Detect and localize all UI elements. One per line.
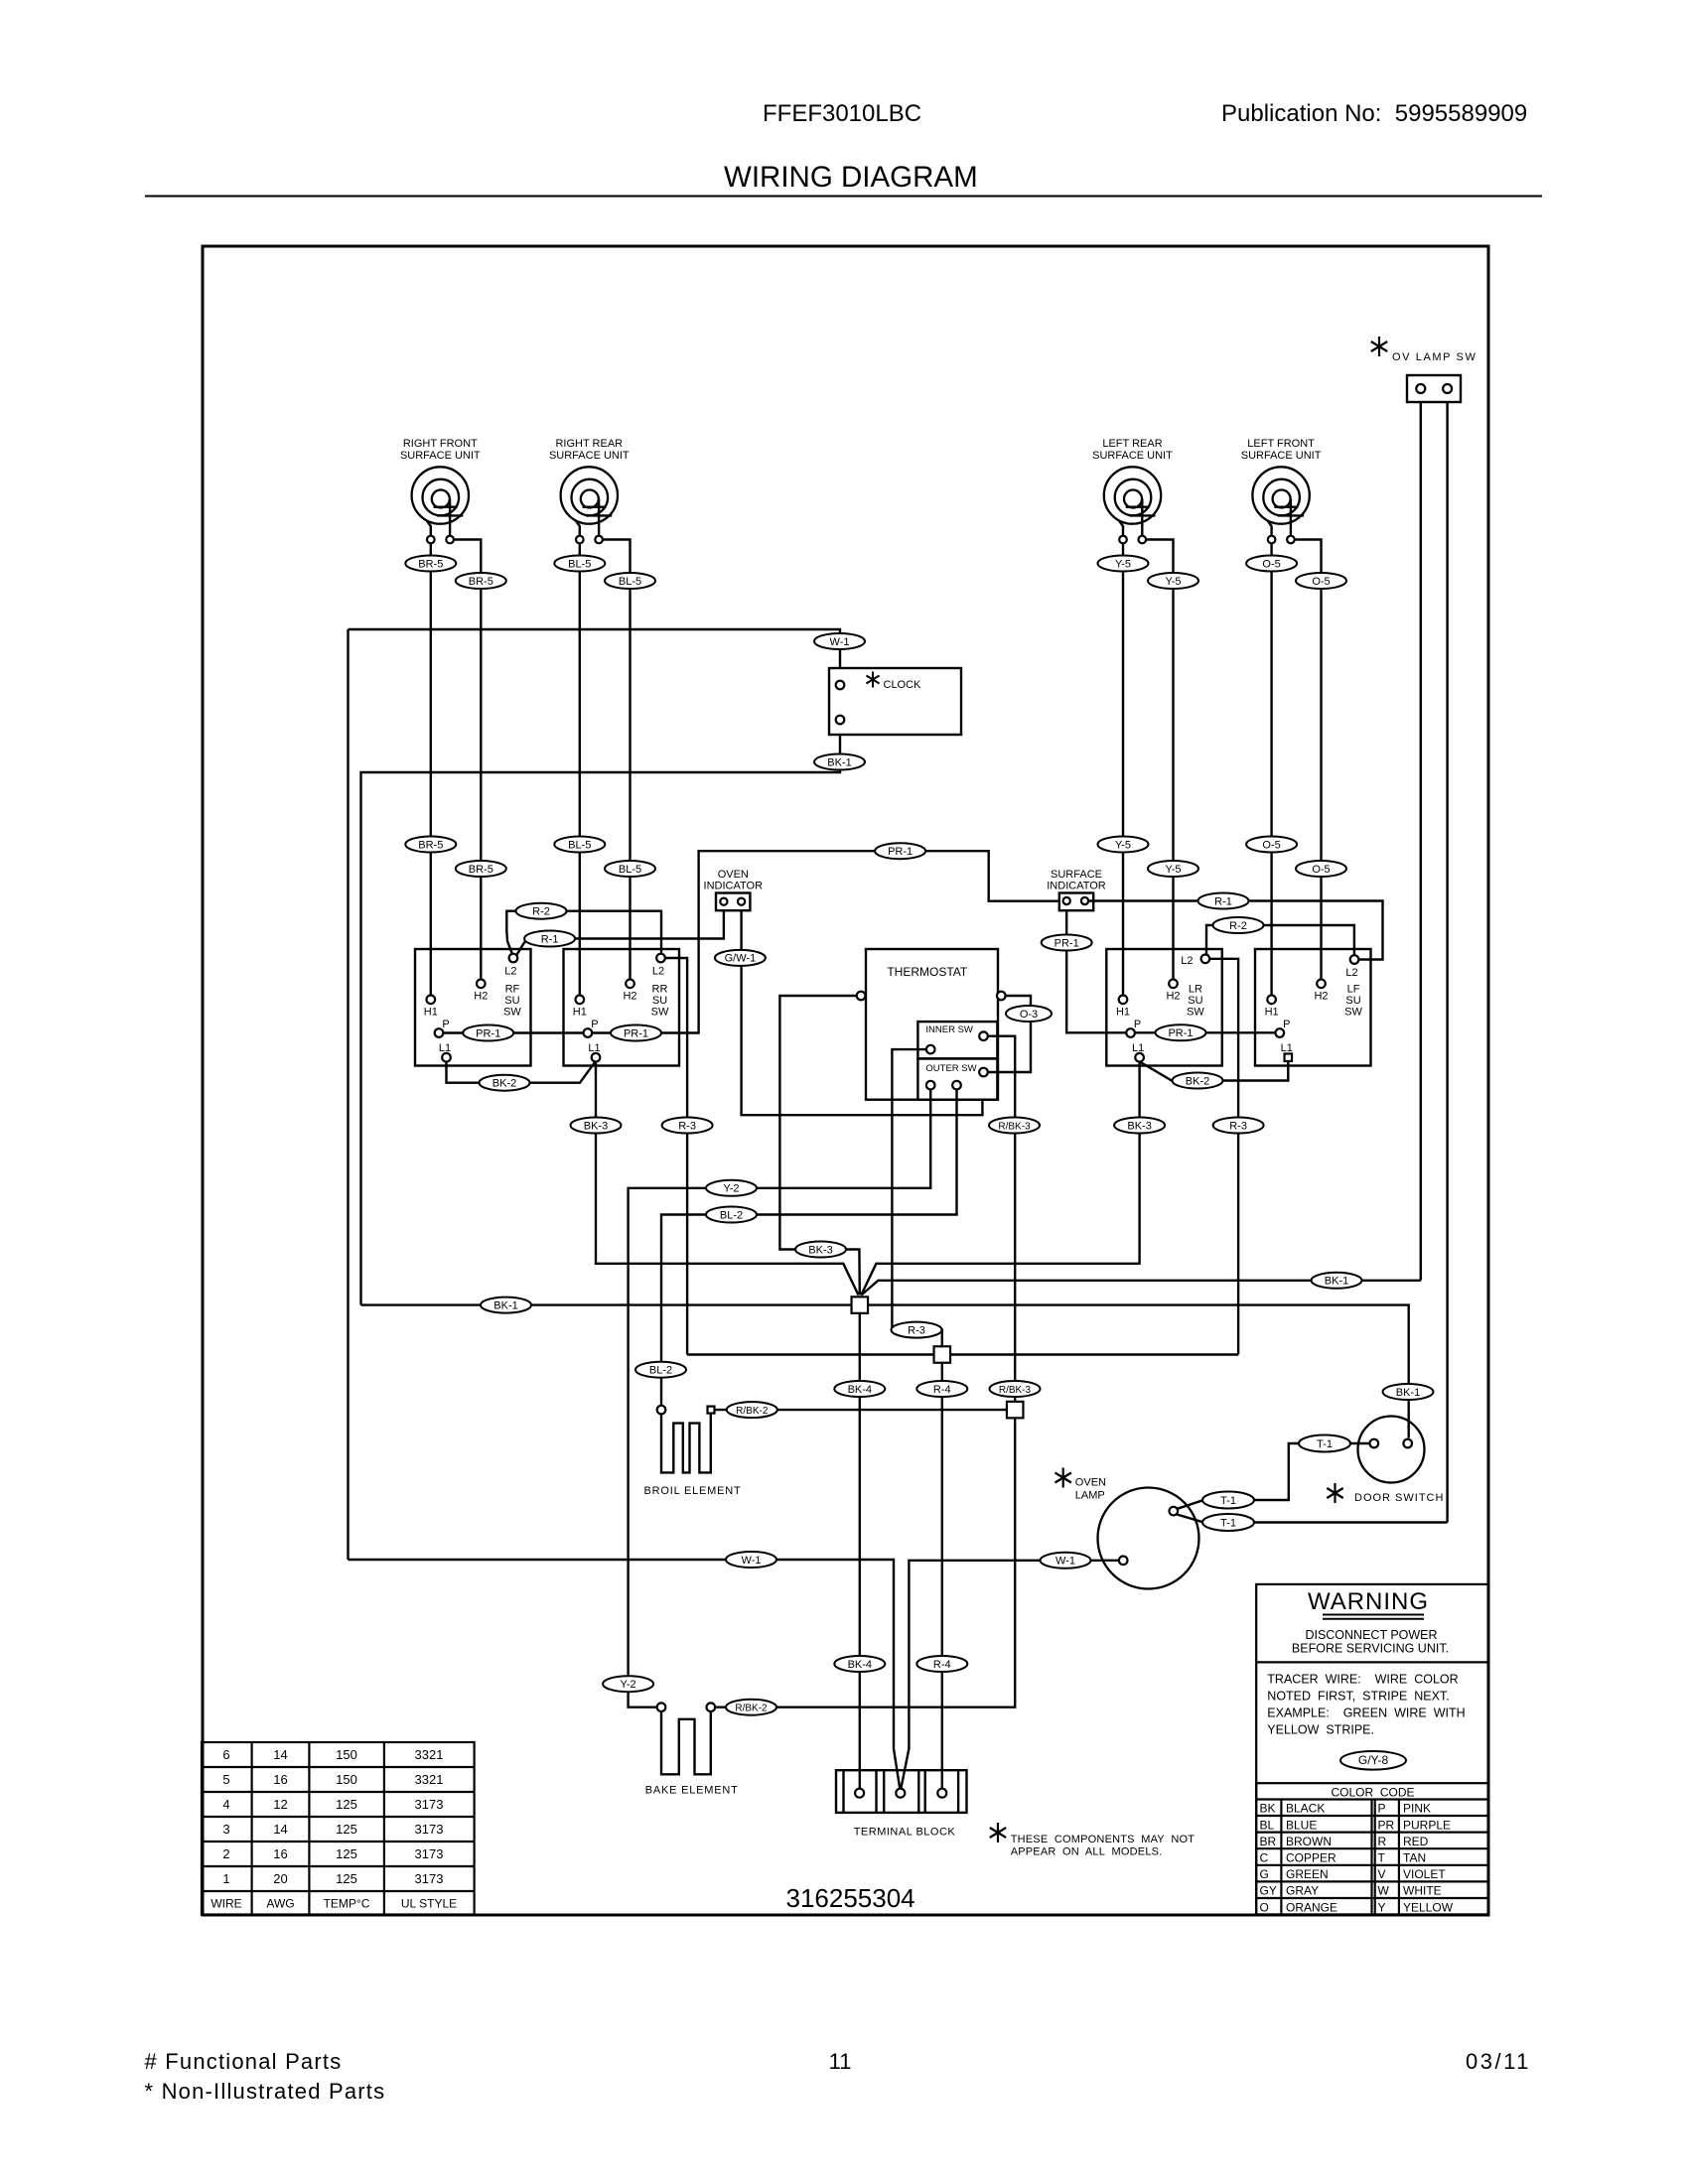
broil element heater coil — [661, 1414, 711, 1473]
svg-text:3173: 3173 — [415, 1797, 444, 1812]
svg-text:G: G — [1260, 1867, 1269, 1881]
title underline — [145, 196, 1542, 198]
OV LAMP SW switch box — [1407, 375, 1461, 402]
wire W-1 to clock — [349, 629, 841, 668]
svg-text:BROIL ELEMENT: BROIL ELEMENT — [644, 1485, 742, 1497]
warning divider — [1256, 1661, 1488, 1663]
OUTER SW terminal bottom left — [926, 1081, 935, 1090]
junction node R/BK (node 3) — [1007, 1402, 1023, 1419]
svg-text:BR: BR — [1260, 1835, 1277, 1848]
wire PR-1 RF P to RR P — [443, 1031, 583, 1033]
svg-text:Publication No: 5995589909: Publication No: 5995589909 — [1221, 100, 1527, 127]
LR terminal H2 — [1169, 980, 1178, 989]
svg-text:NOTED FIRST, STRIPE NEXT.: NOTED FIRST, STRIPE NEXT. — [1267, 1690, 1449, 1704]
door switch body — [1358, 1417, 1425, 1483]
label T-1 — [1202, 1514, 1254, 1531]
svg-text:YELLOW: YELLOW — [1403, 1900, 1454, 1914]
wire O-5 left (LF H1) — [1270, 543, 1272, 995]
svg-text:4: 4 — [222, 1797, 229, 1812]
wire BK-3 RR L1 down — [596, 1062, 859, 1296]
wire R-1 surface indicator to LF L2 — [1088, 901, 1382, 960]
svg-text:BK-2: BK-2 — [1186, 1075, 1209, 1087]
oven lamp terminal lower — [1119, 1557, 1128, 1566]
OVEN INDICATOR terminal left — [720, 898, 727, 905]
label BK-4 — [834, 1656, 885, 1672]
label T-1 — [1299, 1435, 1350, 1452]
wire R-3 LR L2 down — [1209, 959, 1238, 1355]
terminal block terminal 2 — [896, 1789, 905, 1798]
svg-text:BK-2: BK-2 — [492, 1078, 516, 1090]
svg-text:WIRE: WIRE — [211, 1897, 241, 1911]
LF SU SW switch box — [1255, 949, 1371, 1066]
svg-text:Y-5: Y-5 — [1115, 558, 1131, 570]
wire BK-1 from OV LAMP SW left terminal — [1420, 402, 1422, 1281]
svg-text:SU: SU — [504, 995, 519, 1007]
svg-text:20: 20 — [273, 1871, 287, 1886]
clock terminal bottom — [836, 716, 845, 725]
svg-text:FFEF3010LBC: FFEF3010LBC — [763, 100, 921, 127]
svg-text:125: 125 — [336, 1797, 357, 1812]
wire R-2 LR L2 to LF L2 — [1206, 925, 1354, 955]
svg-text:11: 11 — [829, 2049, 852, 2074]
svg-text:WIRING DIAGRAM: WIRING DIAGRAM — [724, 161, 978, 194]
label BL-2 — [706, 1207, 757, 1223]
terminal block terminal 1 — [855, 1789, 864, 1798]
svg-text:H2: H2 — [1166, 991, 1180, 1003]
svg-text:L1: L1 — [1281, 1042, 1293, 1054]
svg-text:BR-5: BR-5 — [469, 576, 493, 588]
svg-text:SW: SW — [1187, 1007, 1204, 1019]
svg-text:V: V — [1378, 1867, 1386, 1881]
svg-text:P: P — [1378, 1802, 1386, 1816]
svg-text:316255304: 316255304 — [786, 1883, 915, 1913]
svg-text:BL-5: BL-5 — [619, 576, 641, 588]
svg-text:RR: RR — [652, 984, 668, 996]
label Y-2 — [603, 1676, 653, 1692]
svg-text:RED: RED — [1403, 1835, 1429, 1848]
INNER SW terminal right — [979, 1031, 988, 1040]
svg-text:BR-5: BR-5 — [418, 839, 443, 851]
svg-text:T-1: T-1 — [1220, 1495, 1236, 1507]
svg-text:BK-4: BK-4 — [848, 1384, 872, 1396]
svg-text:SW: SW — [1344, 1007, 1362, 1019]
label BK-1 — [814, 754, 865, 770]
wire BK-1 node to OV LAMP SW — [862, 1281, 1421, 1296]
svg-text:R-1: R-1 — [1214, 895, 1232, 907]
svg-text:GRAY: GRAY — [1286, 1884, 1319, 1898]
label R/BK-3 — [989, 1118, 1040, 1134]
svg-text:VIOLET: VIOLET — [1403, 1867, 1446, 1881]
RR terminal L1 — [592, 1053, 601, 1062]
svg-text:T: T — [1378, 1851, 1386, 1865]
label BL-5 — [605, 861, 655, 877]
terminal block terminal 3 — [937, 1789, 946, 1798]
label Y-5 — [1148, 861, 1198, 877]
door switch asterisk — [1334, 1483, 1336, 1503]
label R/BK-2 — [726, 1700, 776, 1715]
svg-text:5: 5 — [222, 1772, 229, 1787]
label R-2 — [516, 903, 567, 919]
RR terminal L2 — [656, 954, 665, 963]
svg-text:BK-4: BK-4 — [848, 1659, 872, 1671]
broil element left terminal — [657, 1406, 666, 1415]
WARNING underline — [1323, 1614, 1424, 1616]
wire BR-5 right (RF H2) — [454, 540, 481, 980]
svg-text:WHITE: WHITE — [1403, 1884, 1442, 1898]
LF terminal P — [1276, 1028, 1285, 1037]
svg-text:BL-2: BL-2 — [649, 1365, 672, 1377]
svg-text:WARNING: WARNING — [1308, 1588, 1429, 1615]
svg-text:LAMP: LAMP — [1075, 1490, 1105, 1502]
LF terminal L2 — [1350, 955, 1359, 964]
svg-text:SW: SW — [651, 1007, 669, 1019]
warning box frame — [1256, 1584, 1488, 1915]
wire BK-1 node to door switch — [868, 1305, 1409, 1438]
label O-5 — [1296, 573, 1346, 589]
svg-text:L2: L2 — [1345, 967, 1357, 979]
svg-text:DISCONNECT POWER: DISCONNECT POWER — [1305, 1628, 1437, 1642]
svg-text:BL-2: BL-2 — [720, 1209, 743, 1221]
label BK-1 — [481, 1297, 531, 1313]
svg-text:R-4: R-4 — [933, 1384, 951, 1396]
svg-text:GREEN: GREEN — [1286, 1867, 1329, 1881]
svg-text:150: 150 — [336, 1747, 357, 1762]
svg-text:YELLOW STRIPE.: YELLOW STRIPE. — [1267, 1723, 1374, 1737]
svg-text:SW: SW — [503, 1007, 521, 1019]
wire R-3 inner switch to node — [892, 1049, 941, 1346]
svg-text:12: 12 — [273, 1797, 287, 1812]
svg-text:SU: SU — [652, 995, 667, 1007]
svg-text:R-1: R-1 — [541, 933, 559, 945]
svg-text:W: W — [1378, 1884, 1390, 1898]
wire PR-1 RR P to surface indicator — [592, 851, 1059, 1032]
LR SU SW switch box — [1106, 949, 1222, 1066]
label PR-1 — [875, 843, 925, 859]
svg-text:O-5: O-5 — [1312, 576, 1330, 588]
svg-text:PINK: PINK — [1403, 1802, 1431, 1816]
svg-text:BR-5: BR-5 — [469, 864, 493, 876]
diagram border frame — [203, 246, 1488, 1915]
label BR-5 — [405, 556, 456, 572]
svg-text:L1: L1 — [1132, 1042, 1144, 1054]
svg-text:125: 125 — [336, 1822, 357, 1837]
OVEN INDICATOR box — [716, 893, 750, 911]
svg-text:T-1: T-1 — [1220, 1517, 1236, 1529]
svg-text:BROWN: BROWN — [1286, 1835, 1332, 1848]
svg-text:SURFACE: SURFACE — [1051, 869, 1102, 881]
OV LAMP SW terminal left — [1416, 384, 1425, 393]
label R-3 — [892, 1322, 942, 1338]
OUTER SW box — [917, 1058, 997, 1099]
svg-text:PR-1: PR-1 — [476, 1027, 500, 1039]
label BK-3 — [1114, 1118, 1165, 1134]
svg-text:APPEAR ON ALL MODELS.: APPEAR ON ALL MODELS. — [1011, 1846, 1163, 1858]
svg-text:W-1: W-1 — [830, 636, 850, 648]
svg-text:R-3: R-3 — [908, 1324, 925, 1336]
wire BR-5 left (RF H1) — [430, 543, 432, 995]
label R-2 — [1213, 917, 1264, 933]
label PR-1 — [1042, 935, 1092, 951]
label BL-5 — [554, 837, 605, 853]
svg-text:BK-1: BK-1 — [1325, 1276, 1348, 1288]
svg-text:3321: 3321 — [415, 1772, 444, 1787]
label O-5 — [1246, 556, 1297, 572]
svg-text:DOOR SWITCH: DOOR SWITCH — [1354, 1492, 1444, 1504]
svg-text:BK: BK — [1260, 1802, 1276, 1816]
svg-text:PR: PR — [1378, 1818, 1395, 1832]
svg-text:R-4: R-4 — [933, 1659, 951, 1671]
wire BK-1 from clock bottom — [361, 735, 841, 1305]
svg-text:RIGHT FRONT: RIGHT FRONT — [403, 438, 478, 450]
svg-text:UL STYLE: UL STYLE — [401, 1897, 457, 1911]
svg-text:L1: L1 — [588, 1042, 600, 1054]
INNER SW terminal left — [926, 1045, 935, 1054]
svg-text:R/BK-3: R/BK-3 — [999, 1385, 1032, 1396]
label W-1 — [814, 633, 865, 649]
wire O-5 right (LF H2) — [1295, 540, 1322, 980]
OV LAMP SW terminal right — [1443, 384, 1452, 393]
label Y-5 — [1148, 573, 1198, 589]
oven lamp terminal upper — [1170, 1507, 1179, 1516]
svg-text:OVEN: OVEN — [718, 869, 749, 881]
oven lamp asterisk — [1062, 1468, 1064, 1488]
svg-text:3173: 3173 — [415, 1846, 444, 1861]
svg-text:SU: SU — [1345, 995, 1360, 1007]
label Y-5 — [1098, 556, 1149, 572]
bake element left terminal — [657, 1703, 666, 1711]
wire R/BK-2 broil to node — [715, 1409, 1008, 1411]
svg-text:BK-3: BK-3 — [808, 1244, 832, 1256]
clock asterisk — [872, 672, 874, 688]
RF terminal H2 — [477, 980, 486, 989]
door switch terminal left — [1370, 1439, 1379, 1448]
svg-text:R-2: R-2 — [532, 906, 550, 918]
svg-text:H2: H2 — [623, 991, 636, 1003]
wire W-1 vertical down left side — [347, 629, 349, 1560]
svg-text:O-3: O-3 — [1020, 1009, 1038, 1021]
svg-text:R/BK-2: R/BK-2 — [736, 1406, 769, 1417]
label R/BK-2 — [727, 1402, 777, 1418]
svg-text:P: P — [1283, 1019, 1290, 1030]
svg-text:LEFT REAR: LEFT REAR — [1102, 438, 1162, 450]
label G/W-1 — [715, 950, 766, 966]
svg-text:TAN: TAN — [1403, 1851, 1426, 1865]
terminal block body — [836, 1770, 967, 1813]
THERMOSTAT box — [866, 949, 998, 1100]
svg-text:L1: L1 — [439, 1042, 451, 1054]
bake element heater coil — [661, 1711, 711, 1774]
wire T-1 from OV LAMP SW right terminal — [1446, 402, 1448, 1523]
svg-text:Y-5: Y-5 — [1165, 864, 1181, 876]
svg-text:BEFORE SERVICING UNIT.: BEFORE SERVICING UNIT. — [1292, 1642, 1449, 1656]
svg-text:PR-1: PR-1 — [1055, 937, 1079, 949]
label Y-5 — [1098, 837, 1149, 853]
wire G/W-1 oven indicator to thermostat case — [742, 910, 983, 1115]
svg-text:SURFACE UNIT: SURFACE UNIT — [400, 450, 481, 462]
svg-text:LEFT FRONT: LEFT FRONT — [1247, 438, 1315, 450]
svg-text:ORANGE: ORANGE — [1286, 1900, 1337, 1914]
SURFACE INDICATOR terminal left — [1063, 897, 1070, 904]
svg-text:SU: SU — [1188, 995, 1202, 1007]
svg-text:* Non-Illustrated Parts: * Non-Illustrated Parts — [145, 2079, 386, 2104]
svg-text:TEMP°C: TEMP°C — [324, 1897, 370, 1911]
svg-text:BL-5: BL-5 — [568, 839, 591, 851]
svg-text:GY: GY — [1260, 1884, 1277, 1898]
label BK-2 — [1173, 1073, 1223, 1089]
wire Y-5 right (LR H2) — [1146, 540, 1173, 980]
wire Y-2 outer switch to bake element — [629, 1089, 931, 1706]
OVEN INDICATOR terminal right — [738, 898, 745, 905]
svg-text:H1: H1 — [573, 1007, 587, 1019]
label BK-1 — [1383, 1384, 1434, 1400]
wire R-1 RF L2 to oven indicator — [517, 910, 724, 955]
svg-text:THERMOSTAT: THERMOSTAT — [887, 965, 968, 979]
junction node R (node 2) — [934, 1346, 951, 1363]
svg-text:BL: BL — [1260, 1818, 1275, 1832]
THERMOSTAT terminal right — [997, 992, 1006, 1001]
svg-text:R-3: R-3 — [1229, 1120, 1247, 1132]
RF terminal P — [435, 1028, 444, 1037]
svg-text:L2: L2 — [504, 966, 516, 978]
INNER SW box — [917, 1022, 997, 1058]
RR terminal P — [584, 1028, 593, 1037]
svg-text:H2: H2 — [1314, 991, 1328, 1003]
svg-text:R-3: R-3 — [678, 1120, 696, 1132]
label R-4 — [916, 1381, 967, 1397]
label PR-1 — [1156, 1024, 1206, 1040]
label O-5 — [1246, 837, 1297, 853]
svg-text:SURFACE UNIT: SURFACE UNIT — [1092, 450, 1173, 462]
svg-text:OVEN: OVEN — [1075, 1476, 1106, 1488]
svg-text:R/BK-2: R/BK-2 — [735, 1704, 768, 1714]
svg-text:INNER SW: INNER SW — [925, 1024, 973, 1035]
svg-text:BK-1: BK-1 — [1396, 1387, 1420, 1399]
svg-text:Y: Y — [1378, 1900, 1386, 1914]
LR surface unit coil — [1104, 467, 1161, 523]
OUTER SW terminal bottom middle — [952, 1081, 961, 1090]
RF terminal L1 — [442, 1053, 451, 1062]
wire BK-3 thermostat left to node — [779, 996, 859, 1296]
svg-text:3173: 3173 — [415, 1871, 444, 1886]
svg-text:P: P — [1134, 1019, 1141, 1030]
svg-text:BK-1: BK-1 — [827, 756, 851, 768]
svg-text:W-1: W-1 — [1055, 1556, 1075, 1568]
door switch terminal right — [1403, 1439, 1412, 1448]
oven lamp bulb — [1098, 1488, 1199, 1589]
svg-text:P: P — [591, 1019, 598, 1030]
THERMOSTAT terminal left — [857, 992, 866, 1001]
wire T-1 oven lamp to OV LAMP SW — [1177, 1515, 1447, 1523]
RF SU SW switch box — [415, 949, 531, 1066]
svg-text:125: 125 — [336, 1871, 357, 1886]
LF surface unit coil — [1252, 467, 1309, 523]
wire R/BK-3 inner switch down — [988, 1036, 1015, 1402]
svg-text:TRACER WIRE: WIRE COLOR: TRACER WIRE: WIRE COLOR — [1267, 1673, 1458, 1687]
label BK-3 — [795, 1242, 846, 1258]
svg-text:PURPLE: PURPLE — [1403, 1818, 1451, 1832]
wire BL-5 right (RR H2) — [603, 540, 631, 980]
label G/Y-8 example — [1340, 1751, 1406, 1770]
svg-text:150: 150 — [336, 1772, 357, 1787]
label BL-2 — [635, 1362, 686, 1378]
svg-text:H1: H1 — [1265, 1007, 1279, 1019]
svg-text:14: 14 — [273, 1747, 287, 1762]
svg-text:BK-1: BK-1 — [493, 1299, 517, 1311]
clock terminal top — [836, 681, 845, 690]
svg-text:RIGHT REAR: RIGHT REAR — [555, 438, 623, 450]
wire R-4 node to terminal block — [941, 1363, 943, 1789]
svg-text:AWG: AWG — [266, 1897, 294, 1911]
label T-1 — [1202, 1492, 1254, 1509]
wire R/BK-2 node to bake element — [715, 1418, 1015, 1706]
label W-1 — [726, 1552, 776, 1568]
RF surface unit coil — [412, 467, 469, 523]
RR surface unit coil — [561, 467, 618, 523]
LF terminal L1 — [1285, 1053, 1293, 1061]
svg-text:R: R — [1378, 1835, 1387, 1848]
wire BK-3 LR L1 down — [861, 1061, 1139, 1295]
svg-text:LF: LF — [1347, 984, 1360, 996]
svg-text:THESE COMPONENTS MAY NOT: THESE COMPONENTS MAY NOT — [1011, 1834, 1196, 1845]
SURFACE INDICATOR box — [1059, 893, 1093, 911]
svg-text:G/W-1: G/W-1 — [725, 953, 757, 965]
svg-text:O: O — [1260, 1900, 1269, 1914]
wire R-3 horizontal into node — [687, 1353, 1238, 1355]
svg-text:COPPER: COPPER — [1286, 1851, 1336, 1865]
wire R-2 RF L2 to RR L2 — [506, 911, 661, 955]
label O-5 — [1296, 861, 1346, 877]
wire BK-4 node to terminal block — [859, 1313, 861, 1789]
svg-text:03/11: 03/11 — [1466, 2049, 1531, 2074]
label W-1 — [1041, 1553, 1091, 1569]
LF terminal H1 — [1267, 996, 1276, 1005]
LR terminal L2 — [1201, 955, 1210, 964]
wire T-1 oven lamp to door switch — [1178, 1500, 1254, 1509]
svg-text:OUTER SW: OUTER SW — [925, 1063, 976, 1074]
RF terminal H1 — [427, 996, 436, 1005]
svg-text:BK-3: BK-3 — [1127, 1120, 1151, 1132]
wire Y-5 left (LR H1) — [1122, 543, 1124, 995]
svg-text:LR: LR — [1189, 984, 1202, 996]
svg-text:16: 16 — [273, 1772, 287, 1787]
label R-1 — [524, 931, 575, 947]
label BL-5 — [554, 556, 605, 572]
wire W-1 left segment to terminal block — [349, 1560, 901, 1789]
svg-text:BL-5: BL-5 — [568, 558, 591, 570]
broil element right terminal — [708, 1407, 715, 1414]
wire gauge table grid — [202, 1742, 475, 1915]
RR SU SW switch box — [564, 949, 680, 1066]
label O-3 — [1006, 1006, 1052, 1022]
label BL-5 — [605, 573, 655, 589]
svg-text:P: P — [442, 1019, 449, 1030]
svg-text:1: 1 — [222, 1871, 229, 1886]
svg-text:RF: RF — [505, 984, 520, 996]
svg-text:BLUE: BLUE — [1286, 1818, 1317, 1832]
label BR-5 — [405, 837, 456, 853]
color code table — [1256, 1783, 1488, 1914]
svg-text:Y-5: Y-5 — [1165, 576, 1181, 588]
svg-text:L2: L2 — [652, 966, 664, 978]
label BK-3 — [571, 1118, 622, 1134]
svg-text:SURFACE UNIT: SURFACE UNIT — [1241, 450, 1322, 462]
OV LAMP SW asterisk — [1378, 337, 1380, 356]
label BR-5 — [456, 573, 506, 589]
label R-3 — [1213, 1118, 1264, 1134]
wire W-1 oven lamp to terminal block — [901, 1561, 1119, 1789]
wire O-3 thermostat right to outer switch — [988, 996, 1031, 1072]
svg-text:3: 3 — [222, 1822, 229, 1837]
